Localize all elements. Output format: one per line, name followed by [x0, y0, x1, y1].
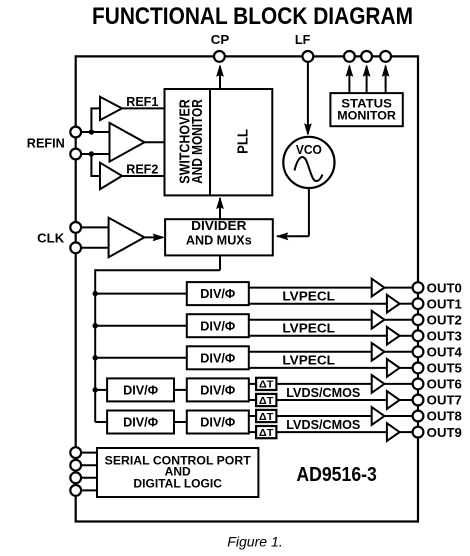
- delay block row4 A: [256, 378, 276, 391]
- buffer CLK: [109, 218, 145, 258]
- pin CLK1: [70, 222, 81, 233]
- wire distribution to divider row 1: [95, 293, 187, 295]
- pin OUT8: [413, 409, 462, 424]
- svg-text:LVPECL: LVPECL: [282, 290, 335, 304]
- wire distribution to divider row 3: [95, 357, 187, 359]
- svg-text:VCO: VCO: [296, 143, 322, 157]
- wire REFIN2 to junction: [76, 153, 92, 155]
- svg-text:OUT7: OUT7: [427, 393, 462, 408]
- svg-text:SWITCHOVERAND MONITOR: SWITCHOVERAND MONITOR: [177, 99, 206, 184]
- block DIV row4 first stage: [107, 378, 174, 401]
- wire serial pin 3 stub: [76, 477, 97, 479]
- node distribution junction 1: [93, 291, 98, 296]
- pin REFIN2: [70, 149, 81, 160]
- pin STATUS3: [380, 51, 391, 62]
- svg-text:LVDS/CMOS: LVDS/CMOS: [286, 418, 360, 432]
- wire row4 delay A to buffer: [276, 383, 372, 385]
- buffer OUT1: [387, 295, 413, 313]
- wire row4 divider to delay A: [249, 383, 256, 385]
- svg-text:REFIN: REFIN: [27, 135, 65, 150]
- wire REF2 buffer output: [121, 175, 165, 177]
- pin STATUS2: [361, 51, 372, 62]
- pin SERIAL3: [70, 472, 81, 483]
- pin SERIAL4: [70, 485, 81, 496]
- block DIV row4: [187, 378, 249, 401]
- svg-text:AND: AND: [165, 466, 191, 478]
- node distribution junction 2: [93, 323, 98, 328]
- svg-text:LF: LF: [295, 32, 311, 47]
- node REF1 junction: [89, 129, 94, 134]
- pin OUT9: [413, 425, 462, 440]
- buffer OUT3: [387, 327, 413, 345]
- wire row5 divider to delay A: [249, 415, 256, 417]
- svg-text:LVPECL: LVPECL: [282, 354, 335, 368]
- wire row5 delay B to buffer: [276, 431, 388, 433]
- svg-text:REF2: REF2: [126, 161, 158, 176]
- svg-text:OUT3: OUT3: [427, 328, 462, 343]
- label LVDS/CMOS row5: [286, 418, 360, 432]
- wire junction1 up to REF1 buffer: [90, 108, 100, 131]
- svg-text:DIVIDER: DIVIDER: [191, 219, 246, 233]
- svg-text:DIV/Φ: DIV/Φ: [200, 287, 235, 301]
- svg-text:OUT8: OUT8: [427, 409, 462, 424]
- pin OUT4: [413, 345, 463, 360]
- svg-text:LVPECL: LVPECL: [282, 322, 335, 336]
- block DIV row1: [187, 282, 249, 305]
- pin LF: [295, 32, 313, 62]
- block SWITCHOVER AND MONITOR: [165, 89, 273, 195]
- wire junction1 to diff buffer: [91, 131, 110, 133]
- svg-text:DIV/Φ: DIV/Φ: [200, 319, 235, 333]
- label LVPECL row3: [282, 354, 335, 368]
- svg-text:AND MUXs: AND MUXs: [186, 233, 252, 247]
- svg-text:DIV/Φ: DIV/Φ: [123, 384, 158, 398]
- block DIV row3: [187, 346, 249, 369]
- svg-text:OUT9: OUT9: [427, 425, 462, 440]
- delay block row4 B: [256, 394, 276, 407]
- delay block row5 B: [256, 426, 276, 439]
- block DIVIDER AND MUXs: [165, 219, 273, 256]
- wire divider output trunk: [95, 255, 220, 422]
- wire row1 line B: [249, 303, 388, 305]
- wire row5 divider to delay B: [249, 431, 256, 433]
- wire CLK1 to buffer: [76, 226, 110, 228]
- oscillator VCO: [283, 137, 334, 188]
- node REF2 junction: [89, 151, 94, 156]
- svg-text:REF1: REF1: [126, 94, 158, 109]
- wire PLL to CP pin: [216, 64, 224, 89]
- wire serial pin 4 stub: [76, 489, 97, 491]
- svg-text:LVDS/CMOS: LVDS/CMOS: [286, 386, 360, 400]
- pin OUT0: [413, 280, 462, 295]
- pin STATUS1: [344, 51, 355, 62]
- wire diff buffer output: [144, 141, 165, 143]
- pin CLK2: [70, 242, 81, 253]
- label AD9516-3: [296, 464, 377, 486]
- block DIV row5 first stage: [107, 411, 174, 434]
- svg-text:CP: CP: [211, 32, 230, 47]
- svg-text:DIV/Φ: DIV/Φ: [200, 416, 235, 430]
- wire row5 delay A to buffer: [276, 415, 372, 417]
- buffer OUT7: [387, 391, 413, 409]
- wire junction2 to diff buffer: [91, 153, 110, 155]
- buffer REFIN differential: [110, 123, 145, 162]
- wire row4 delay B to buffer: [276, 399, 388, 401]
- buffer OUT0: [372, 279, 413, 297]
- wire row1 line A: [249, 287, 373, 289]
- label LVPECL row1: [282, 290, 335, 304]
- svg-text:DIGITAL LOGIC: DIGITAL LOGIC: [133, 478, 222, 490]
- delay block row5 A: [256, 410, 276, 423]
- svg-text:ΔT: ΔT: [259, 379, 274, 391]
- label SWITCHOVER AND MONITOR: [177, 99, 206, 184]
- wire row3 line B: [249, 367, 388, 369]
- wire divider to PLL feedback: [216, 197, 224, 219]
- buffer OUT6: [372, 375, 413, 393]
- svg-text:OUT1: OUT1: [427, 296, 462, 311]
- wire LF pin to VCO: [304, 62, 312, 136]
- buffer REF1: [100, 97, 122, 120]
- block DIV row2: [187, 314, 249, 337]
- label REFIN: [27, 135, 65, 150]
- title FUNCTIONAL BLOCK DIAGRAM: [0, 0, 470, 30]
- svg-text:DIV/Φ: DIV/Φ: [123, 416, 158, 430]
- wire serial pin 1 stub: [76, 452, 97, 454]
- svg-text:DIV/Φ: DIV/Φ: [200, 351, 235, 365]
- svg-text:OUT6: OUT6: [427, 377, 462, 392]
- svg-text:Figure 1.: Figure 1.: [227, 534, 283, 550]
- pin OUT2: [413, 312, 462, 327]
- pin OUT1: [413, 296, 462, 311]
- wire row4 left divider to right divider: [174, 389, 188, 391]
- label REF1: [126, 94, 158, 109]
- wire CLK buffer to divider: [143, 234, 165, 242]
- svg-text:AD9516-3: AD9516-3: [296, 464, 377, 486]
- svg-text:ΔT: ΔT: [259, 427, 274, 439]
- label PLL: [235, 129, 252, 154]
- wire row2 line A: [249, 319, 373, 321]
- svg-text:MONITOR: MONITOR: [337, 109, 396, 123]
- pin OUT7: [413, 393, 462, 408]
- buffer OUT5: [387, 359, 413, 377]
- label REF2: [126, 161, 158, 176]
- wire row5 left divider to right divider: [174, 421, 188, 423]
- wire distribution to divider row 4: [95, 389, 107, 391]
- buffer OUT2: [372, 311, 413, 329]
- svg-text:OUT4: OUT4: [427, 345, 463, 360]
- label LVDS/CMOS row4: [286, 386, 360, 400]
- wire distribution to divider row 2: [95, 325, 187, 327]
- wire status lines: [346, 64, 390, 93]
- pin SERIAL2: [70, 460, 81, 471]
- pin OUT5: [413, 361, 462, 376]
- wire junction2 down to REF2 buffer: [90, 153, 100, 176]
- wire serial pin 2 stub: [76, 464, 97, 466]
- svg-text:PLL: PLL: [235, 129, 252, 154]
- pin SERIAL1: [70, 447, 81, 458]
- node distribution junction 3: [93, 355, 98, 360]
- block SERIAL CONTROL PORT AND DIGITAL LOGIC: [97, 448, 258, 497]
- wire outer frame: [76, 56, 418, 521]
- label CLK: [37, 230, 65, 245]
- wire REF1 buffer output: [121, 107, 165, 109]
- wire CLK2 to buffer: [76, 247, 110, 249]
- svg-text:CLK: CLK: [37, 230, 65, 245]
- pin CP: [211, 32, 230, 62]
- svg-text:DIV/Φ: DIV/Φ: [200, 384, 235, 398]
- buffer OUT9: [387, 423, 413, 441]
- buffer REF2: [100, 163, 122, 190]
- block STATUS MONITOR: [330, 93, 402, 126]
- wire VCO to divider feedback: [276, 188, 309, 240]
- block DIV row5: [187, 411, 249, 434]
- buffer OUT4: [372, 343, 413, 361]
- pin OUT3: [413, 328, 462, 343]
- svg-text:OUT0: OUT0: [427, 280, 462, 295]
- caption Figure 1.: [227, 534, 283, 550]
- pin REFIN1: [70, 127, 81, 138]
- wire row3 line A: [249, 351, 373, 353]
- wire row2 line B: [249, 335, 388, 337]
- svg-text:ΔT: ΔT: [259, 411, 274, 423]
- wire REFIN1 to junction: [76, 131, 92, 133]
- label LVPECL row2: [282, 322, 335, 336]
- svg-text:OUT5: OUT5: [427, 361, 462, 376]
- svg-text:OUT2: OUT2: [427, 312, 462, 327]
- svg-text:ΔT: ΔT: [259, 395, 274, 407]
- buffer OUT8: [372, 407, 413, 425]
- pin OUT6: [413, 377, 462, 392]
- node distribution junction 4: [93, 387, 98, 392]
- wire row4 divider to delay B: [249, 399, 256, 401]
